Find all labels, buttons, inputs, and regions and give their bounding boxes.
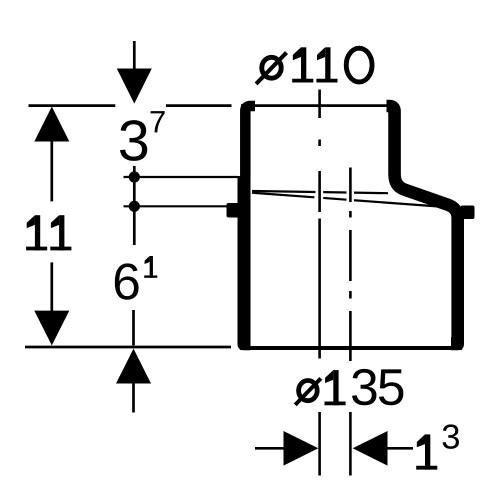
centerline of bottom socket x=350.4 (dash-dot) [349, 168, 352, 362]
extension line of bottom socket centerline (solid) [349, 412, 352, 476]
fitting top edge (socket opening) [241, 104, 399, 107]
dimension label 1 superscript 3 [416, 434, 437, 469]
internal taper line upper [252, 191, 388, 193]
fitting left lower wall [238, 176, 251, 343]
offset arrow pointing left [353, 431, 388, 466]
dimension line bottom [25, 346, 231, 349]
centerline of top socket x=319.6 (dash-dot) [318, 90, 321, 213]
extension line of top socket centerline (solid) [318, 219, 321, 476]
reference dot lower [129, 201, 140, 212]
label diameter 135 [295, 378, 321, 405]
fitting right clamp tab [461, 206, 475, 220]
fitting bottom-left corner [238, 337, 251, 350]
arrow up for dimension 11 (top end) [34, 107, 69, 142]
dimension label 6 superscript 1 [115, 263, 139, 299]
dimension line top (overall height, upper reference) [29, 104, 232, 107]
extension line below 6 label [132, 310, 135, 345]
fitting bottom-right corner [451, 337, 464, 350]
offset dimension tail right [386, 447, 413, 450]
offset dimension tail left [255, 447, 284, 450]
fitting left upper wall with top-left corner [245, 106, 255, 178]
arrow down at x=134 pointing to top line [133, 41, 136, 69]
label diameter 110 [256, 53, 286, 84]
tick line from upper dot to fitting wall [124, 176, 239, 178]
dimension label 11 [26, 215, 47, 250]
extension line x=134 with reference dots [133, 166, 136, 245]
tick line from lower dot to fitting tab [124, 205, 229, 207]
fitting bottom edge (socket opening) [240, 346, 462, 350]
arrow up below bottom line at x=133.5 [116, 349, 151, 384]
arrow down for dimension 11 (bottom end) [50, 262, 53, 311]
reference dot upper [129, 171, 140, 182]
internal taper line lower [252, 193, 444, 207]
fitting right wall with top-right corner, shoulder and lower wall [387, 106, 458, 343]
dimension label 3 superscript 7 [120, 120, 147, 161]
fitting left clamp tab [227, 203, 242, 218]
offset arrow pointing right [284, 431, 319, 466]
